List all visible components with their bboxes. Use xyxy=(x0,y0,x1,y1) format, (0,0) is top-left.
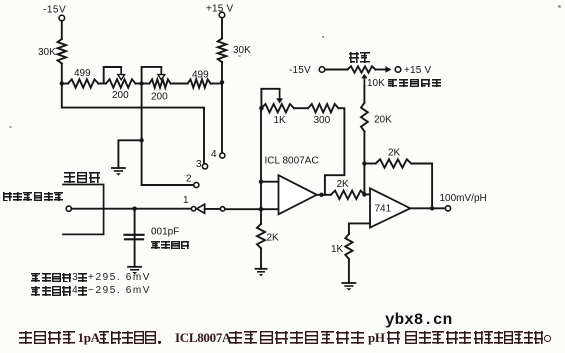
svg-text:2K: 2K xyxy=(337,179,350,190)
pin 3 terminal xyxy=(196,159,208,170)
wire P2 to R4 xyxy=(171,83,188,85)
wire R1 to node A xyxy=(61,64,63,84)
wire node A down and right to pin 3 xyxy=(62,84,204,164)
resistor R2 30K xyxy=(218,39,251,63)
guard shield box (防护层) xyxy=(63,185,104,235)
svg-text:2K: 2K xyxy=(267,233,280,244)
wire node J to U2 inverting input xyxy=(364,164,370,195)
wire node C down to pin 2 corner xyxy=(142,84,194,186)
svg-text:200: 200 xyxy=(151,92,168,103)
net -15V terminal (calibration) xyxy=(289,65,325,76)
wire R5 to U1 output (feedback) xyxy=(325,108,345,195)
wire U1 inverting input xyxy=(261,181,279,183)
wire R4 to node B xyxy=(211,83,222,85)
pin 2 terminal xyxy=(186,174,199,188)
svg-text:300: 300 xyxy=(314,115,331,126)
pin 1 left contact xyxy=(191,207,195,211)
svg-text:1K: 1K xyxy=(274,115,287,126)
node H junction xyxy=(259,180,263,184)
potentiometer P4 wiper arrow xyxy=(361,74,367,86)
node L junction (output) xyxy=(430,206,434,210)
wire -15V to R1 xyxy=(61,21,63,39)
net +15V terminal (calibration) xyxy=(395,65,431,76)
wire cal right with arrow xyxy=(376,66,392,72)
wire +15V to R2 xyxy=(221,18,223,39)
net -15V terminal (left supply) xyxy=(43,5,66,21)
wire R6 to ground G3 xyxy=(260,248,262,268)
node K junction (U2 inv input) xyxy=(362,192,366,196)
svg-text:100mV/pH: 100mV/pH xyxy=(440,193,487,204)
node A junction xyxy=(60,81,64,85)
potentiometer P2 200 track xyxy=(149,79,170,102)
resistor R1 30K xyxy=(38,39,66,64)
wire P3 to R5 xyxy=(294,107,308,109)
pin 4 terminal xyxy=(211,149,225,160)
node G junction (P3 left end) xyxy=(259,106,263,110)
wire node D to ground G1 xyxy=(118,140,141,168)
resistor R9 2K feedback xyxy=(376,148,412,168)
label glass probe input 玻璃探头输入 xyxy=(2,192,64,208)
potentiometer P1 wiper loop xyxy=(98,67,124,84)
wire R8 to node J xyxy=(363,131,365,163)
resistor R6 2K to ground xyxy=(257,224,279,249)
resistor R4 499 xyxy=(188,70,211,88)
note line 1: set position 3 to +295.6mV xyxy=(31,273,152,283)
node E junction (capacitor tap) xyxy=(132,207,136,211)
pin 1 plug triangle xyxy=(197,204,205,213)
wire node B to pin 4 xyxy=(221,82,223,153)
potentiometer P2 wiper loop xyxy=(142,67,165,84)
label polystyrene 聚苯乙烯 xyxy=(151,241,191,257)
node B junction xyxy=(220,80,224,84)
label 10K helical potentiometer 10K螺旋电位器 xyxy=(367,79,443,89)
potentiometer P1 200 track xyxy=(106,79,136,101)
resistor R8 20K xyxy=(361,103,392,132)
wire inverting net vertical xyxy=(260,108,262,224)
svg-text:-15V: -15V xyxy=(43,5,66,16)
svg-text:30K: 30K xyxy=(38,47,56,58)
node C junction (between pots) xyxy=(139,81,143,85)
svg-text:-15V: -15V xyxy=(289,65,311,76)
op-amp U2 741 xyxy=(370,188,410,227)
node J junction (feedback tap) xyxy=(362,161,366,165)
wire U1 output to node I xyxy=(317,194,331,196)
wire P4 wiper to R8 xyxy=(363,86,365,103)
input terminal J1 glass probe xyxy=(66,206,71,211)
resistor R5 300 xyxy=(308,104,339,126)
node F junction (crossing at inverting net) xyxy=(259,207,263,211)
op-amp U1 ICL8007AC xyxy=(265,156,319,215)
wire cal left xyxy=(325,69,348,71)
wire C1 to ground G2 xyxy=(134,239,136,266)
potentiometer P4 10K track xyxy=(348,66,376,72)
svg-text:1: 1 xyxy=(183,195,189,206)
svg-text:741: 741 xyxy=(375,204,392,215)
capacitor C1 001pF xyxy=(125,227,180,240)
svg-text:4: 4 xyxy=(211,149,217,160)
ground G3 xyxy=(256,269,267,277)
svg-text:+15 V: +15 V xyxy=(404,65,432,76)
note line 2: set position 4 to -295.6mV xyxy=(31,286,152,296)
svg-text:ICL 8007AC: ICL 8007AC xyxy=(265,156,319,167)
wire R9 to output node xyxy=(411,164,432,209)
pin 1 right contact xyxy=(220,207,224,211)
resistor R3 499 xyxy=(68,68,98,88)
svg-text:499: 499 xyxy=(74,68,91,79)
net +15V terminal (right supply) xyxy=(206,4,234,18)
svg-text:1K: 1K xyxy=(331,244,344,255)
node D junction (ground tap) xyxy=(139,138,143,142)
resistor R10 1K xyxy=(331,234,353,259)
ground G4 xyxy=(342,283,355,291)
wire node J to R9 xyxy=(364,163,375,165)
wire U2 output xyxy=(410,207,445,209)
decorative speck xyxy=(322,36,324,38)
ground G1 xyxy=(112,168,125,176)
wire node A to R3 xyxy=(62,83,68,85)
svg-text:30K: 30K xyxy=(233,45,251,56)
wire R10 to ground G4 xyxy=(348,259,350,283)
output terminal 100mV/pH xyxy=(440,193,487,211)
svg-text:2K: 2K xyxy=(388,148,401,159)
svg-text:2: 2 xyxy=(186,174,192,185)
resistor R7 2K interstage xyxy=(331,179,365,199)
svg-text:499: 499 xyxy=(192,70,209,81)
wire P1 to node C xyxy=(136,83,150,85)
wire plug to right contact xyxy=(205,208,220,210)
svg-text:200: 200 xyxy=(112,90,129,101)
pin 1 label xyxy=(183,195,189,206)
watermark ybx8.cn xyxy=(385,312,452,328)
caption: 只要保证1pA的输入偏置，ICL8007A就可构成一个理想的pH计或长时间的采样和保持电路。 xyxy=(0,331,565,347)
ground G2 xyxy=(128,267,141,275)
wire U2 noninverting input to R10 xyxy=(349,223,370,234)
wire input to connector xyxy=(71,208,191,210)
wire connector to U1 input xyxy=(225,208,278,210)
svg-text:+15 V: +15 V xyxy=(206,4,234,15)
svg-text:001pF: 001pF xyxy=(151,227,179,238)
potentiometer P3 wiper loop xyxy=(261,89,283,108)
wire R2 to node B xyxy=(221,62,223,82)
svg-text:20K: 20K xyxy=(374,115,392,126)
node I junction (U1 output) xyxy=(319,193,323,197)
label guard layer 防护层 xyxy=(64,172,101,188)
wire node E to C1 xyxy=(134,209,136,239)
potentiometer P3 1K track xyxy=(261,104,294,126)
svg-text:3: 3 xyxy=(196,159,202,170)
label calibrate 校准 xyxy=(348,52,371,68)
